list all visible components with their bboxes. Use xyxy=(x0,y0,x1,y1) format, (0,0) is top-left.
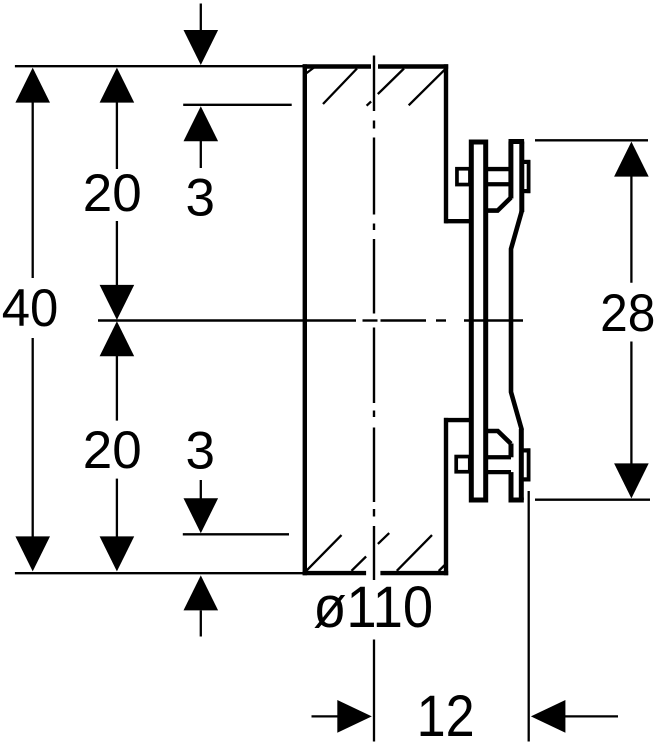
svg-text:20: 20 xyxy=(83,164,142,223)
svg-text:20: 20 xyxy=(83,421,142,480)
svg-text:3: 3 xyxy=(186,169,215,228)
svg-text:3: 3 xyxy=(186,422,215,481)
svg-text:40: 40 xyxy=(2,279,59,338)
svg-text:12: 12 xyxy=(417,684,475,744)
svg-text:ø110: ø110 xyxy=(313,575,433,640)
svg-text:28: 28 xyxy=(600,284,655,343)
